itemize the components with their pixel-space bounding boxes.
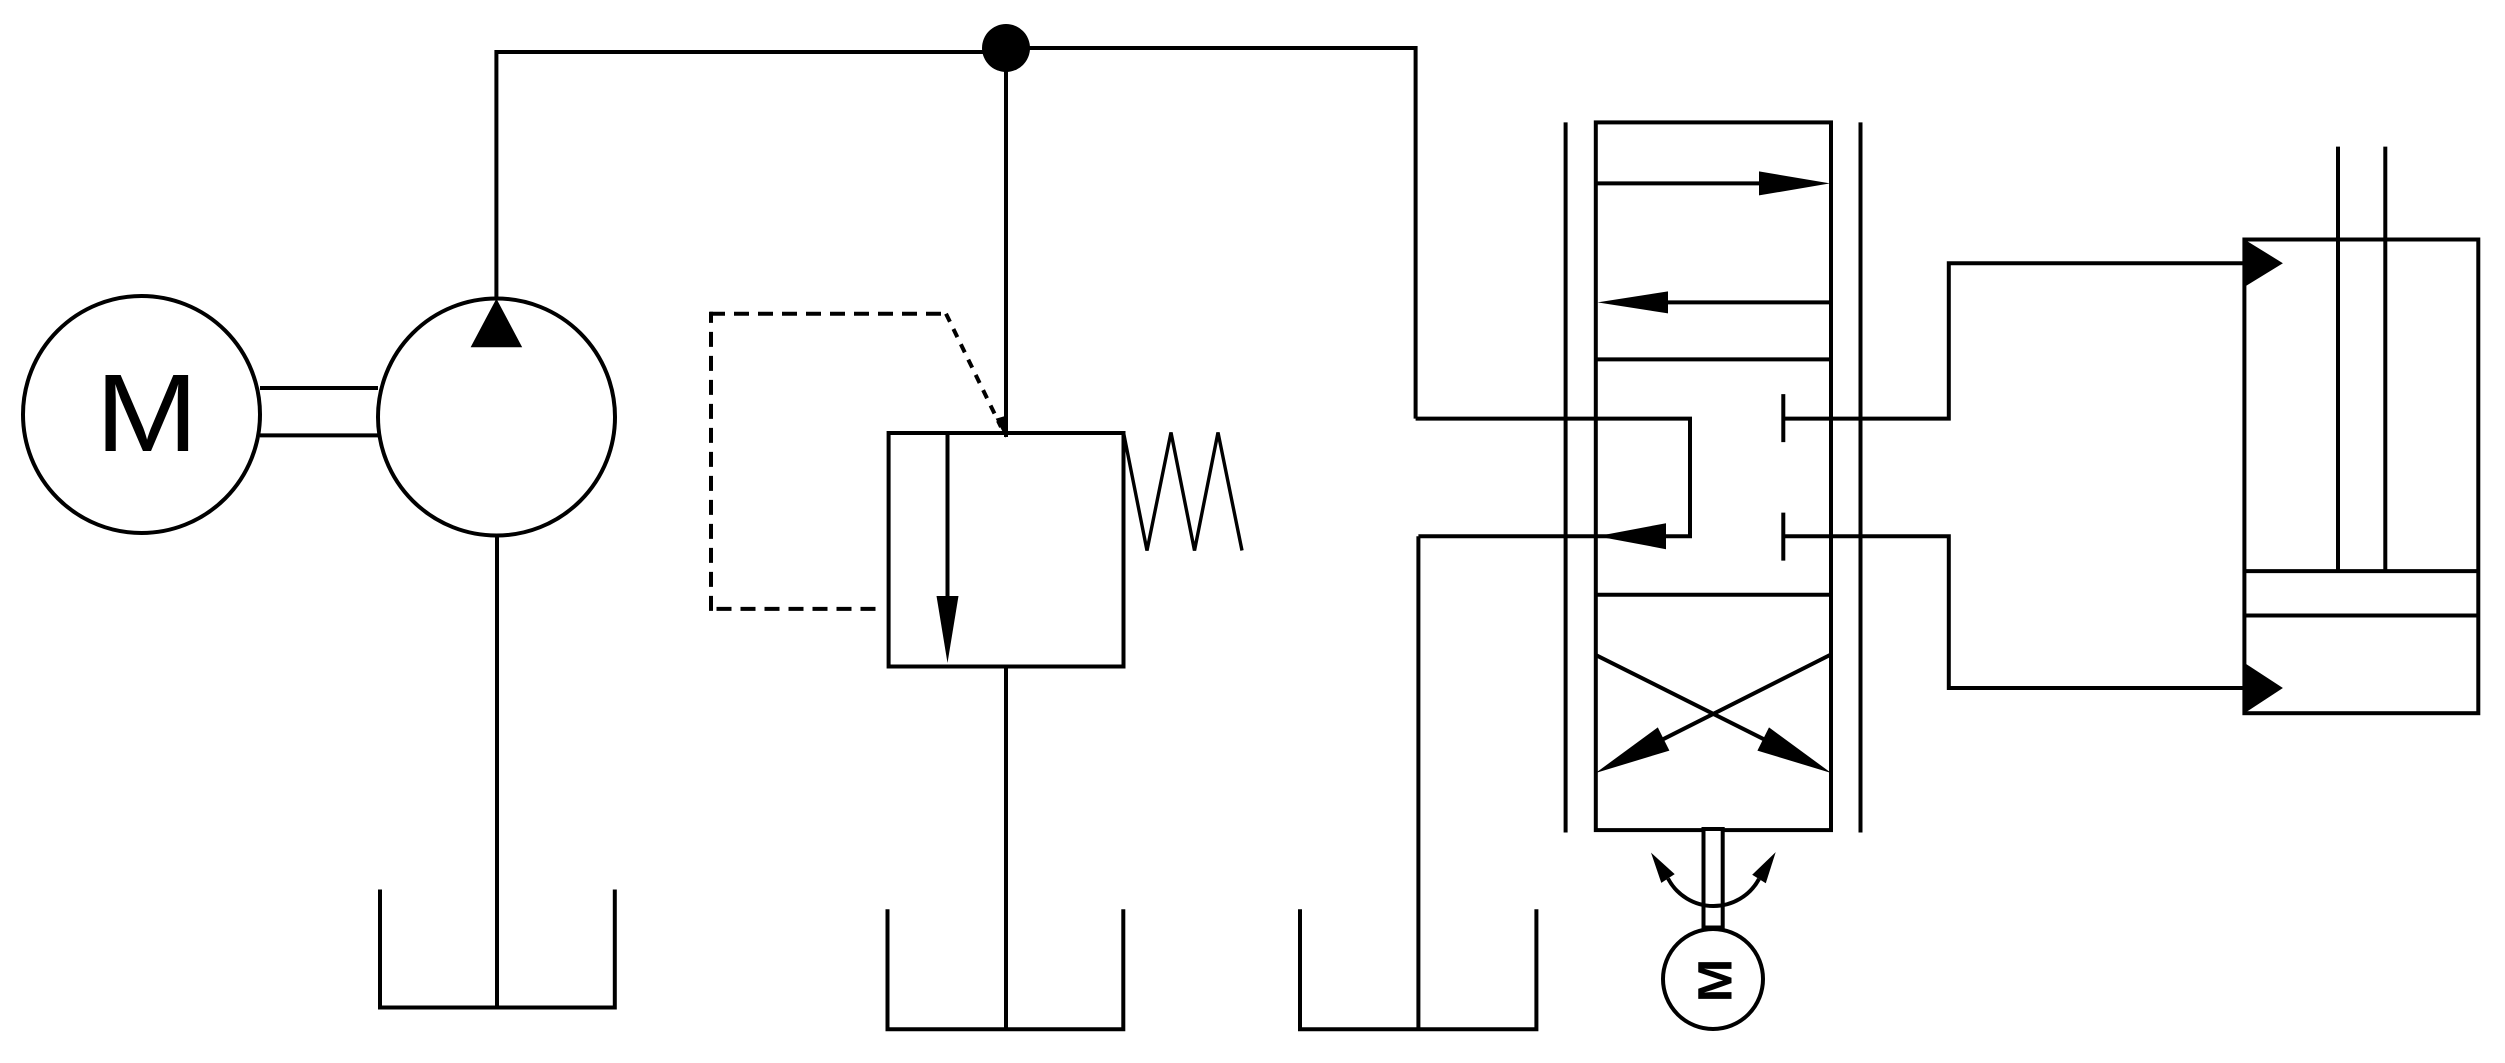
envelope divider 2 (1596, 593, 1831, 597)
cylinder bottom port arrow (2244, 663, 2283, 713)
wire junction to relief valve (1004, 48, 1008, 437)
blocked port B (1781, 513, 1785, 561)
wire pump inlet to tank T1 (495, 536, 499, 1008)
position 3 crossed arrow B (1596, 654, 1832, 773)
junction node (982, 24, 1030, 72)
relief valve flow path arrow (937, 433, 959, 663)
electric motor M1 (23, 296, 260, 533)
wire valve port A to cylinder top (1783, 263, 2244, 418)
directional valve DV1 left rail (1564, 122, 1568, 832)
tank T2 (888, 909, 1124, 1029)
directional valve DV1 envelope (1596, 122, 1831, 830)
tank T1 (380, 890, 615, 1008)
rotary actuator arc (1668, 879, 1759, 907)
cylinder piston rod (2338, 147, 2385, 571)
feed line P through center position (1416, 419, 1690, 537)
cylinder top port arrow (2244, 240, 2283, 287)
cylinder C1 body (2244, 240, 2478, 714)
relief valve V1 body (889, 433, 1124, 667)
position 3 crossed arrow A (1596, 655, 1832, 773)
directional valve DV1 right rail (1859, 122, 1863, 832)
wire junction to valve feed elbow (1006, 48, 1416, 419)
actuator stem (1704, 829, 1723, 928)
valve actuator motor M2 (1663, 929, 1763, 1029)
wire valve port B to cylinder bottom (1783, 536, 2244, 688)
envelope divider 1 (1596, 357, 1831, 361)
wire valve tank port to tank T3 (1416, 536, 1420, 1029)
svg-text:M: M (95, 351, 198, 474)
blocked port A (1781, 394, 1785, 442)
rotary arc right arrowhead (1752, 852, 1776, 883)
wire relief valve to tank T2 (1004, 667, 1008, 1030)
shaft coupling (260, 388, 378, 435)
center position arrow to tank (1597, 523, 1666, 549)
rotary arc left arrowhead (1651, 853, 1675, 883)
hydraulic pump P1 (378, 299, 615, 536)
tank T3 (1300, 909, 1536, 1029)
wire pump outlet to junction (496, 52, 1006, 299)
position 1 arrow left (1598, 291, 1832, 313)
cylinder piston (2244, 571, 2478, 615)
pilot line arrowhead (996, 416, 1006, 438)
relief valve spring (1124, 433, 1243, 551)
svg-text:M: M (1687, 959, 1741, 1003)
position 1 arrow right (1596, 171, 1830, 195)
pilot line (dashed) (709, 312, 1001, 611)
